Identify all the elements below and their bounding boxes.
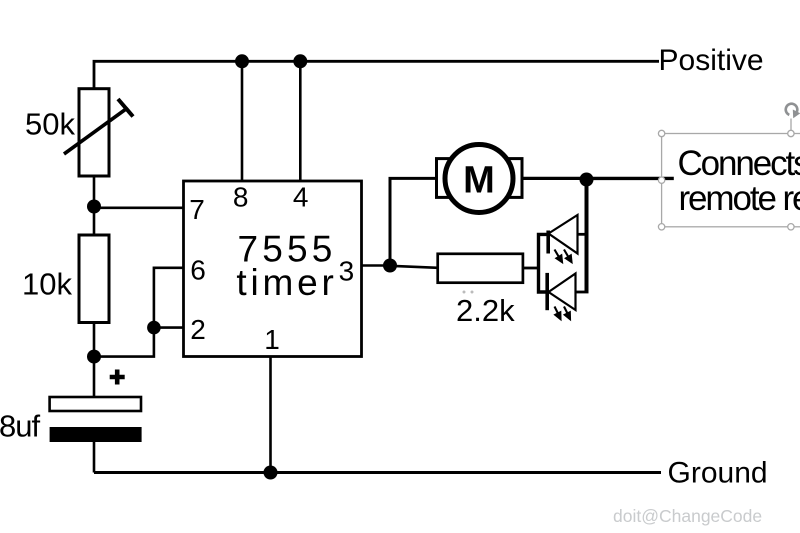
- resistor R3 2.2k: [438, 254, 523, 283]
- node: junction pot/10k/pin7: [87, 200, 101, 214]
- svg-text:4: 4: [293, 182, 309, 213]
- wire: bottom ground rail: [94, 471, 661, 474]
- wire: 10k bottom to lower junction: [93, 323, 96, 357]
- svg-text:Positive: Positive: [659, 44, 764, 77]
- wire: pin2 net down to left rail: [94, 328, 154, 357]
- svg-text:1: 1: [264, 324, 280, 355]
- wire: pin3 junction to 2.2k resistor: [390, 266, 438, 268]
- wire: top positive rail: [94, 61, 659, 89]
- svg-text:8: 8: [233, 182, 249, 213]
- capacitor C1 polarity plus sign: [110, 370, 125, 385]
- wire: pin 3 output: [362, 264, 391, 267]
- svg-text:M: M: [463, 159, 495, 201]
- wire: junction down to 10k top: [93, 207, 96, 236]
- svg-text:50k: 50k: [25, 107, 75, 142]
- wire: pin 8 supply drop: [241, 61, 244, 181]
- capacitor C1 bottom plate: [50, 427, 142, 442]
- svg-text:7: 7: [189, 194, 205, 225]
- node: junction left rail / cap top: [87, 350, 101, 364]
- wire: pin 1 drop to ground: [269, 357, 272, 473]
- wire: top LED to right rail: [578, 233, 587, 236]
- node: junction pin 3 net: [383, 259, 397, 273]
- wire: pin 4 reset drop: [299, 61, 302, 181]
- capacitor C1 top plate: [50, 397, 141, 411]
- wire: motor right to junction: [522, 177, 587, 180]
- svg-text:2: 2: [190, 314, 206, 345]
- LED D2 bottom: [547, 273, 575, 319]
- resistor R2 10k: [79, 235, 109, 323]
- node: junction ground rail / pin 1: [264, 466, 278, 480]
- node: junction pin2 net: [147, 321, 161, 335]
- node: junction on top rail to pin 8: [235, 54, 249, 68]
- wire: capacitor bottom to ground rail: [93, 442, 96, 473]
- motor M1: [437, 145, 523, 213]
- LED D1 top: [548, 215, 577, 262]
- svg-text:timer: timer: [236, 262, 337, 303]
- svg-text:8uf: 8uf: [0, 409, 40, 444]
- potentiometer R1 50k: [64, 89, 133, 176]
- op-amp U1 7555 timer IC body: [184, 181, 362, 357]
- wire: pot bottom to junction: [93, 176, 96, 207]
- svg-text:3: 3: [339, 256, 355, 287]
- svg-text:10k: 10k: [22, 267, 72, 302]
- wire: pin3 up and over to motor: [390, 178, 437, 265]
- node: junction motor / LED rail / output: [580, 173, 594, 187]
- svg-text:Ground: Ground: [668, 457, 768, 490]
- wire: junction to remote text box: [587, 177, 674, 180]
- svg-text:6: 6: [190, 255, 206, 286]
- svg-text:Connects to: Connects to: [678, 144, 800, 183]
- svg-text:remote rece: remote rece: [679, 179, 800, 218]
- wire: bottom LED to right rail: [576, 291, 589, 294]
- wire: pin 2 stub: [154, 326, 184, 329]
- svg-text:doit@ChangeCode: doit@ChangeCode: [613, 506, 762, 526]
- node: junction on top rail to pin 4: [293, 54, 307, 68]
- textbox: selection handles: [658, 130, 794, 230]
- wire: left LED rail: [539, 234, 549, 292]
- svg-text:2.2k: 2.2k: [456, 293, 515, 328]
- wire: pin 6 loop to pin 2: [154, 268, 184, 328]
- textbox: rotate handle icon: [786, 104, 800, 118]
- wire: 2.2k right to LED left rail: [523, 267, 539, 270]
- wire: junction to capacitor top plate: [93, 357, 96, 397]
- artifact dots above 2.2k: [463, 291, 474, 294]
- wire: junction to pin 7: [94, 207, 184, 210]
- wire: right LED rail down: [585, 180, 589, 294]
- textbox: selection frame for remote note: [662, 119, 800, 227]
